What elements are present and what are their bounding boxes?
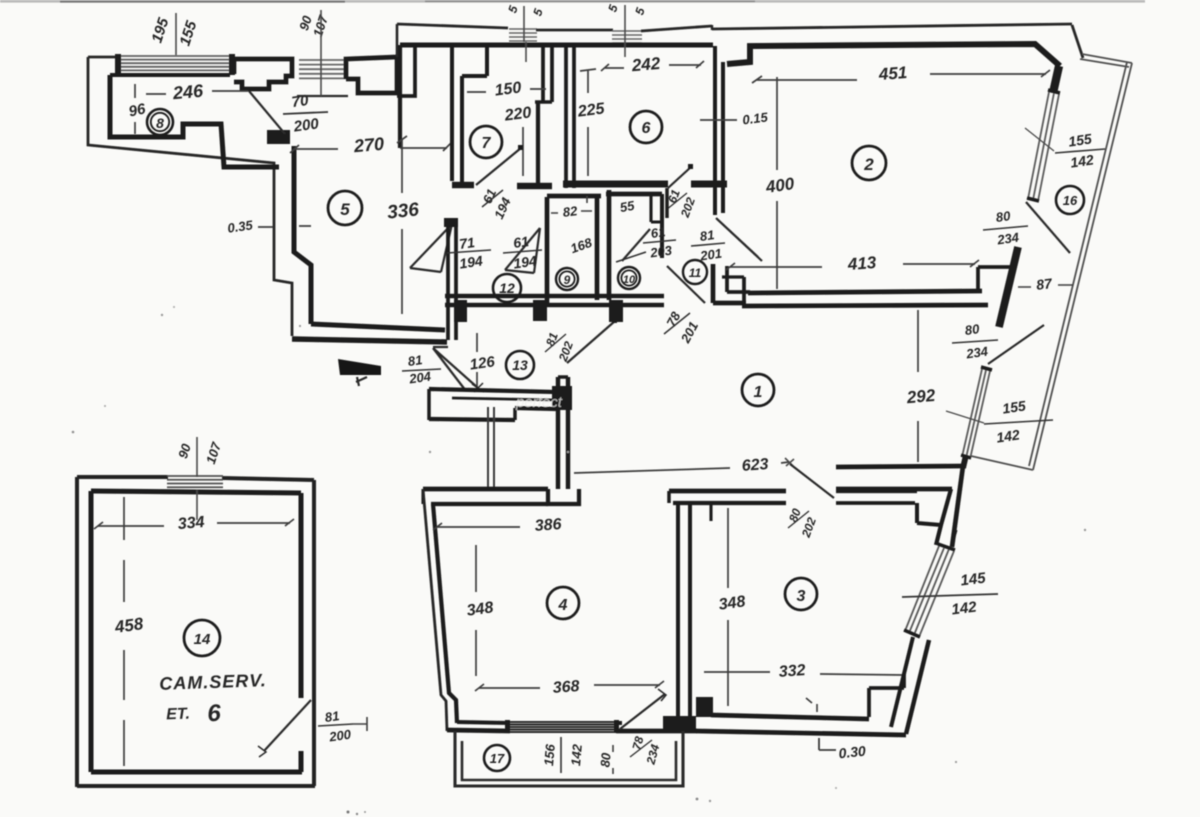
svg-text:90: 90 <box>175 441 194 460</box>
wall room10 right <box>660 194 664 258</box>
svg-text:201: 201 <box>698 246 723 264</box>
svg-text:0.35: 0.35 <box>226 217 254 235</box>
wall room1 bottom outer <box>836 466 964 467</box>
room number circle 10 double <box>618 267 640 289</box>
wall room14 inner right upper <box>299 493 304 698</box>
chimney outline between 8 and corridor <box>234 59 292 89</box>
svg-text:201: 201 <box>677 319 701 346</box>
svg-text:155: 155 <box>176 18 200 48</box>
svg-text:5: 5 <box>605 3 620 14</box>
svg-text:78: 78 <box>629 735 646 752</box>
svg-text:168: 168 <box>568 234 594 256</box>
svg-text:17: 17 <box>490 751 505 766</box>
wall room14 outer top left <box>77 475 168 479</box>
wall bottom inner room 5 <box>311 324 445 330</box>
svg-text:195: 195 <box>148 15 172 45</box>
svg-text:61: 61 <box>512 233 530 251</box>
svg-text:107: 107 <box>203 440 224 466</box>
wall top inner room 2 <box>727 44 1060 66</box>
wall room9 left <box>545 197 550 304</box>
svg-text:234: 234 <box>995 229 1020 247</box>
dim line 246 <box>146 91 248 94</box>
wall outer top-left segment <box>88 56 118 59</box>
door stub tab 1 <box>454 300 467 322</box>
svg-text:5: 5 <box>632 6 647 17</box>
svg-text:10: 10 <box>623 274 636 286</box>
svg-text:150: 150 <box>494 79 523 99</box>
balcony 16 outline bottom <box>971 456 1033 470</box>
svg-text:14: 14 <box>194 631 211 648</box>
svg-text:142: 142 <box>568 743 585 767</box>
door leaf 70/200 <box>249 91 285 134</box>
svg-text:155: 155 <box>1067 130 1093 149</box>
wall room1 corner slant inner <box>936 489 951 545</box>
window hatch 195/155 room 8 <box>117 56 233 74</box>
svg-text:270: 270 <box>352 134 385 157</box>
door leaf room11 81/201 <box>717 219 758 257</box>
door triangle 81/204 entrance <box>433 347 478 391</box>
svg-text:9: 9 <box>564 273 571 287</box>
wall bottom room7 segments <box>452 185 552 186</box>
window hatch 5/5 second <box>612 31 642 43</box>
wall room14 inner bottom <box>91 770 302 775</box>
wall small step right of stem <box>709 505 712 521</box>
dim tie 90/107 <box>320 10 322 96</box>
door triangle 61/194 into room9 <box>505 228 540 273</box>
dim line 623 <box>574 462 789 473</box>
wall room2 bottom right end <box>978 267 1010 291</box>
wall room10 left / shaft <box>607 190 612 300</box>
svg-text:70: 70 <box>291 92 311 111</box>
room number circle 5 <box>328 191 362 225</box>
wall room3 right slant upper <box>952 530 956 544</box>
niche 55 room10 <box>651 196 661 222</box>
dim line 451 <box>757 74 1046 80</box>
svg-text:336: 336 <box>386 199 420 223</box>
wall right slant top segment <box>1053 66 1059 93</box>
svg-text:348: 348 <box>718 593 747 614</box>
svg-text:12: 12 <box>499 280 515 296</box>
wall top inner band rooms 7/6 <box>400 43 713 48</box>
wall room3 bottom inner <box>711 715 869 719</box>
room number circle 3 <box>785 578 817 610</box>
door leaf 81/202 corridor13 <box>567 321 615 363</box>
svg-text:348: 348 <box>466 599 495 620</box>
svg-text:13: 13 <box>512 357 528 373</box>
dim line 96 vertical <box>134 84 136 134</box>
door stub tab 3 <box>609 300 623 322</box>
wall divider 4/3 double <box>676 504 680 717</box>
door to balcony 80/234 upper leaf <box>1026 202 1070 253</box>
svg-text:71: 71 <box>458 234 476 252</box>
svg-text:203: 203 <box>648 242 673 260</box>
wall room4 bottom outer <box>447 730 510 731</box>
wall top outer corner jog <box>711 25 713 30</box>
door jamb 70/200 block <box>267 130 290 144</box>
door leaf into room2 81/201 <box>716 218 762 261</box>
wall corridor13 bottom band <box>429 389 556 392</box>
scan specks <box>161 314 163 316</box>
svg-text:81: 81 <box>407 352 423 369</box>
wall room14 outer left <box>75 477 79 787</box>
svg-text:0.30: 0.30 <box>838 743 867 762</box>
wall room4 top <box>423 487 548 492</box>
svg-text:perfect: perfect <box>515 394 563 411</box>
svg-text:145: 145 <box>960 569 988 589</box>
svg-text:194: 194 <box>512 252 538 271</box>
wall center column <box>556 377 561 489</box>
svg-text:2: 2 <box>863 155 874 174</box>
svg-text:ET.: ET. <box>166 706 190 724</box>
room number circle 9 double <box>556 268 578 290</box>
svg-text:5: 5 <box>530 7 545 18</box>
wall room6 left double <box>564 46 568 188</box>
wall top outer left section <box>397 24 508 28</box>
room number circle 13 <box>506 351 534 379</box>
door leaf room3 80/202 <box>790 464 834 498</box>
tie win2 <box>624 5 626 57</box>
dim line 458 vertical <box>123 497 125 766</box>
wall room2 bottom lower line <box>742 305 988 306</box>
svg-text:220: 220 <box>503 104 533 124</box>
svg-text:292: 292 <box>905 386 936 408</box>
balcony outline inner <box>462 741 676 780</box>
svg-text:1: 1 <box>754 384 763 401</box>
wall room14 inner left <box>89 491 94 772</box>
window hatch 5/5 first <box>509 29 537 41</box>
wall shaft inner x415 <box>397 46 415 96</box>
wall room14 inner right stub <box>299 751 304 772</box>
room number circle 11 <box>683 260 707 284</box>
wall room3 right slant lower outer <box>906 640 929 734</box>
room number circle 6 <box>630 111 662 143</box>
svg-text:55: 55 <box>619 198 637 215</box>
svg-text:61: 61 <box>650 224 666 241</box>
wall room10 top <box>606 192 662 197</box>
dim line 81/200 <box>353 717 367 731</box>
door leaf room6 61/202 <box>668 167 691 188</box>
svg-text:126: 126 <box>469 353 497 373</box>
wall room9 right / shaft <box>595 194 600 300</box>
svg-text:3: 3 <box>797 588 806 605</box>
door stub tab 2 <box>533 300 547 321</box>
wall room5 right double <box>446 227 450 340</box>
wall room2 bottom left jamb <box>727 266 750 292</box>
svg-text:80: 80 <box>964 321 981 338</box>
svg-text:4: 4 <box>558 597 568 614</box>
wall outer top-right corner <box>1072 25 1083 58</box>
wall foot room4/3 bottom <box>663 716 696 731</box>
svg-text:5: 5 <box>505 4 520 15</box>
svg-text:7: 7 <box>482 135 492 152</box>
svg-text:80: 80 <box>995 208 1012 225</box>
dim line 150 <box>467 89 546 92</box>
svg-text:623: 623 <box>741 456 769 475</box>
door leaf room10 61/203 <box>622 229 650 261</box>
svg-text:242: 242 <box>630 54 661 76</box>
dim tie line 195/155 <box>175 13 177 55</box>
svg-text:200: 200 <box>292 115 321 136</box>
wall right of window to door <box>616 729 697 734</box>
dim line 126 vertical <box>476 333 478 386</box>
room number circle 4 <box>547 587 579 619</box>
door triangle 71/194 from room5 <box>410 224 452 272</box>
svg-text:400: 400 <box>764 174 796 197</box>
svg-text:156: 156 <box>541 743 558 767</box>
wall line below window 90/107 <box>297 95 348 97</box>
dim line 400 vertical <box>776 77 778 289</box>
svg-text:334: 334 <box>177 514 205 533</box>
scan artifact top grey strip <box>0 0 1145 3</box>
wall room7 right jog <box>535 100 552 104</box>
wall bottom room6 <box>563 180 668 187</box>
wall room11 stub <box>665 188 669 218</box>
tie win1 <box>524 6 526 62</box>
wall room7 right lower <box>536 102 540 184</box>
window hatch 145/142 slant <box>905 546 954 637</box>
wall inner room 8 <box>110 75 279 167</box>
svg-text:142: 142 <box>1069 151 1095 170</box>
door leaf hall 78/201 <box>667 266 705 303</box>
door leaf room14 81/200 <box>264 700 311 751</box>
wall room14 inner top <box>91 491 301 493</box>
small check mark room3 <box>806 698 817 712</box>
wall room4 left outer slant <box>423 489 447 731</box>
chimney outline right of 90/107 window <box>346 57 397 93</box>
room number circle 8 <box>147 109 173 135</box>
dim line 292 vertical <box>917 310 919 462</box>
dim line 336 vertical <box>401 139 403 314</box>
tick 0.30 <box>819 738 836 750</box>
svg-text:202: 202 <box>799 515 819 540</box>
door leaf 78/234 <box>620 694 665 729</box>
svg-text:16: 16 <box>1063 193 1078 208</box>
balcony 16 outline right <box>1029 62 1132 470</box>
window hatch 90/107 top corridor <box>299 60 346 78</box>
svg-text:386: 386 <box>534 516 562 535</box>
wall room3 bottom right step <box>869 674 904 717</box>
svg-text:11: 11 <box>689 266 702 280</box>
svg-text:225: 225 <box>576 100 607 120</box>
wall room3 top left segment <box>669 489 786 494</box>
svg-text:200: 200 <box>327 726 352 744</box>
svg-text:8: 8 <box>156 115 164 131</box>
dim tie 82 vertical <box>586 196 588 203</box>
wall room3 step right <box>917 503 941 525</box>
window hatch room1 slant 155/142 <box>962 369 990 459</box>
wall room3 right slant lower inner <box>891 637 913 727</box>
wall room1 corner slant outer <box>952 466 963 547</box>
wall top outer room 2 <box>712 24 1072 29</box>
wall top outer step up at x397 <box>396 24 399 57</box>
wall band bottom rooms 9/10 <box>445 294 664 299</box>
svg-text:194: 194 <box>458 252 484 271</box>
svg-text:6: 6 <box>642 120 651 137</box>
dim line 220 vertical <box>522 127 524 176</box>
window hatch 90/107 room14 <box>167 476 223 491</box>
svg-text:332: 332 <box>778 662 806 681</box>
dim line 413 <box>730 264 975 267</box>
svg-text:96: 96 <box>127 100 147 120</box>
dim line 270 <box>295 148 447 149</box>
wall room2 bottom top line <box>748 291 982 293</box>
wall room7 closet step <box>462 46 487 76</box>
scan specks bottom <box>347 811 350 814</box>
wall room14 outer bottom <box>77 784 315 788</box>
room number circle 12 <box>493 274 521 302</box>
wall left inner room 5 <box>294 146 311 324</box>
wall room7 left double <box>450 45 454 181</box>
balcony outline outer <box>455 731 683 786</box>
wall shaft left x400 <box>398 45 402 148</box>
wall bottom room6 right of door <box>691 180 727 187</box>
door to balcony 80/234 lower leaf <box>988 325 1044 364</box>
window hatch room2 slant 155/142 <box>1028 92 1059 201</box>
svg-text:5: 5 <box>340 200 350 219</box>
room number circle 14 <box>184 620 220 656</box>
tick 0.15 <box>700 119 737 121</box>
wall piece 87 on slant <box>999 247 1018 327</box>
svg-text:202: 202 <box>556 339 576 364</box>
svg-text:82: 82 <box>562 203 579 220</box>
svg-text:413: 413 <box>846 253 877 274</box>
room number circle 7 <box>470 126 502 158</box>
wall room9 top <box>547 194 601 199</box>
svg-text:142: 142 <box>951 598 979 618</box>
room number circle 16 <box>1056 186 1084 214</box>
dim line 386 <box>433 523 520 530</box>
wall column foot <box>548 489 579 504</box>
svg-text:81: 81 <box>324 708 340 725</box>
wall divider 6/2 double <box>713 46 717 215</box>
dim line 332 <box>704 672 903 675</box>
wall room14 outer right <box>312 480 316 786</box>
svg-text:87: 87 <box>1035 275 1054 293</box>
svg-text:234: 234 <box>643 742 662 766</box>
svg-text:155: 155 <box>1001 397 1027 416</box>
wall corner bottom right room1 <box>963 455 966 468</box>
wall junction column top <box>552 386 572 410</box>
tick 0.35 <box>258 226 311 227</box>
door jamb room5/12 top <box>444 218 458 227</box>
window jambs room 8 <box>115 54 121 75</box>
lightwell thin walls <box>488 407 494 488</box>
door leaf room7 61/194 <box>476 148 521 185</box>
svg-text:204: 204 <box>407 368 432 386</box>
wall room7 right double upper <box>541 46 545 102</box>
wall outer boundary room 8 block <box>88 57 292 336</box>
wall C piece left of room1 <box>711 264 716 303</box>
svg-text:458: 458 <box>113 614 145 637</box>
dim line 225 vertical <box>580 69 596 176</box>
balcony 16 outline top <box>1080 54 1132 67</box>
svg-text:81: 81 <box>699 227 715 244</box>
room number circle 17 <box>484 745 510 771</box>
svg-text:80: 80 <box>597 751 613 767</box>
wall top outer mid <box>536 29 613 32</box>
window hatch 156/142 <box>508 722 618 732</box>
dim line 368 <box>479 685 660 688</box>
wall room1 bottom inner <box>836 487 952 492</box>
svg-text:368: 368 <box>552 678 580 697</box>
svg-text:142: 142 <box>995 426 1021 445</box>
dim line 348 room4 vertical <box>475 545 477 676</box>
svg-text:80: 80 <box>786 506 804 524</box>
room number circle 1 <box>742 374 774 406</box>
dim line 242 <box>605 65 701 68</box>
wall bottom outer room 5 <box>292 339 447 342</box>
fraction bar 156/142 vertical <box>560 737 562 773</box>
svg-text:CAM.SERV.: CAM.SERV. <box>159 670 267 694</box>
wall room3 bottom left step <box>696 697 713 717</box>
north pennant <box>338 359 381 375</box>
svg-text:0.15: 0.15 <box>742 109 770 127</box>
svg-text:246: 246 <box>171 81 205 104</box>
wall room14 outer top right <box>222 478 314 480</box>
wall room3 top right segment <box>836 489 917 493</box>
dim line 348 room3 vertical <box>727 508 729 706</box>
svg-text:234: 234 <box>964 343 989 361</box>
svg-text:451: 451 <box>877 63 908 84</box>
dim line 334 <box>98 523 290 526</box>
wall room4 bottom inner <box>457 722 510 723</box>
svg-text:6: 6 <box>207 700 222 727</box>
dim tie room14 window <box>196 437 198 520</box>
wall room4 left inner slant <box>433 504 457 723</box>
wall top outer to corner <box>641 26 712 31</box>
room number circle 2 <box>852 146 886 180</box>
wall room3 bottom outer <box>696 731 906 735</box>
